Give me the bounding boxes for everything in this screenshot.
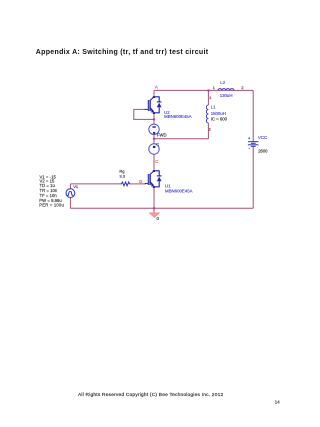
svg-text:L2: L2 — [220, 80, 225, 85]
svg-text:2: 2 — [241, 86, 243, 90]
V1 parameters text block — [39, 174, 64, 207]
IGBT U1 — [145, 170, 162, 188]
svg-text:1: 1 — [209, 96, 211, 100]
inductor L2 — [218, 89, 234, 91]
svg-text:VCC: VCC — [258, 135, 267, 140]
IGBT U2 (gate-emitter shorted, freewheel) — [145, 96, 162, 114]
wire: right rail lower (VCC - to bottom rail) — [252, 146, 254, 208]
wire: V1 top lead — [69, 184, 71, 189]
svg-text:MBN600E45A: MBN600E45A — [164, 114, 192, 119]
svg-text:C: C — [155, 159, 158, 164]
resistor Rg — [121, 182, 131, 186]
wire: U2 emitter down to probe FWD — [153, 113, 155, 124]
ground 0 symbol — [149, 213, 160, 218]
inductor L1 — [206, 105, 208, 123]
svg-text:PER = 100u: PER = 100u — [39, 203, 64, 208]
wire: U2 gate-emitter short loop — [134, 109, 154, 119]
svg-text:TF = 10n: TF = 10n — [40, 193, 58, 198]
svg-text:V1: V1 — [73, 184, 79, 189]
wires (net segments) — [70, 90, 253, 212]
wire: V1 to Rg — [70, 183, 120, 185]
junction: ground rail — [153, 207, 155, 209]
svg-text:1: 1 — [213, 86, 215, 90]
svg-text:3.3: 3.3 — [119, 173, 125, 178]
wire: U1 emitter to ground rail — [153, 187, 155, 208]
svg-text:FWD: FWD — [157, 132, 167, 137]
svg-text:Appendix A: Switching (tr, tf: Appendix A: Switching (tr, tf and trr) t… — [36, 49, 209, 56]
wire: Rg to U1 gate — [131, 183, 146, 185]
wire: L1 top branch from junction — [207, 90, 209, 105]
svg-text:C: C — [156, 141, 159, 146]
wire: L1 bottom lead to corner — [207, 123, 209, 139]
pulse source V1 — [66, 189, 75, 198]
svg-text:All Rights Reserved Copyright: All Rights Reserved Copyright (C) Bee Te… — [78, 392, 223, 398]
current probe FWD — [149, 124, 159, 134]
svg-text:MBN600E45A: MBN600E45A — [165, 189, 193, 194]
wire: ground stub — [153, 208, 155, 213]
wire: probe FWD to node, to probe C — [153, 134, 155, 144]
wire: bottom rail — [70, 207, 253, 209]
svg-text:IC = 600: IC = 600 — [211, 117, 228, 122]
svg-text:A: A — [155, 85, 158, 90]
junction: U2 gate-emitter tie — [153, 118, 155, 120]
DC source VCC battery — [248, 137, 259, 148]
svg-text:14: 14 — [275, 400, 281, 405]
svg-text:G: G — [139, 179, 143, 184]
svg-text:130uH: 130uH — [220, 93, 233, 98]
svg-text:2600: 2600 — [258, 149, 268, 154]
junction: top rail / L1 — [207, 89, 209, 91]
wire: probe C to U1 collector — [153, 154, 155, 170]
wire: node A stub to U2 collector — [153, 90, 155, 96]
svg-text:1500uH: 1500uH — [211, 111, 226, 116]
wire: top rail from node A to right corner — [154, 89, 253, 91]
current probe C — [149, 144, 159, 154]
svg-text:L1: L1 — [211, 104, 216, 109]
wire: node C horizontal to L1 — [154, 138, 208, 140]
junction: node C — [153, 138, 155, 140]
wire: V1 bottom lead — [69, 197, 71, 208]
wire: right rail upper (to VCC +) — [252, 90, 254, 141]
svg-text:2: 2 — [209, 128, 211, 132]
